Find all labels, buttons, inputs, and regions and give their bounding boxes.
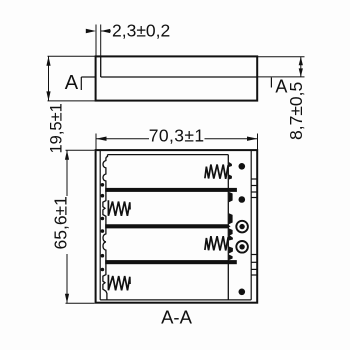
spring slot2 (left)	[108, 200, 130, 216]
extension line top	[258, 56, 305, 58]
inner wall bottom line	[100, 299, 251, 301]
svg-text:8,7±0,5: 8,7±0,5	[286, 82, 306, 140]
arrowhead down 19,5	[46, 91, 50, 101]
dimension 19,5±1 (left of top view)	[48, 56, 96, 101]
svg-text:A: A	[65, 72, 79, 94]
dimension line	[48, 56, 50, 101]
separator bar 1	[105, 188, 237, 192]
section marker A right	[270, 78, 272, 88]
cavity top edge	[108, 154, 229, 156]
extension line bottom	[48, 100, 96, 102]
outer body outline section	[96, 150, 258, 303]
extension line bottom	[66, 302, 95, 304]
arrowhead left 70,3	[96, 137, 107, 141]
dimension line left part	[96, 138, 149, 140]
contact plate bump above bar3	[229, 255, 233, 261]
body outline top view	[96, 56, 258, 100]
step vertical line	[100, 56, 102, 77]
arrowhead right of 2,3	[101, 29, 111, 33]
dimension line	[300, 57, 302, 77]
contact plate bump below bar1	[229, 192, 233, 202]
spring attach bumps slot1	[229, 162, 232, 167]
svg-text:19,5±1: 19,5±1	[48, 103, 66, 153]
dimension line right part	[205, 138, 258, 140]
step horizontal line	[101, 76, 257, 78]
separator bar 3	[105, 260, 237, 264]
extension line top	[66, 149, 95, 151]
svg-text:65,6±1: 65,6±1	[51, 196, 71, 249]
cavity right edge	[227, 155, 229, 300]
spring slot4 (left)	[108, 275, 130, 291]
contact plate bump below bar2	[229, 228, 233, 235]
dimension 65,6±1 (left of section)	[66, 150, 95, 303]
arrowhead down 65,6	[65, 294, 69, 304]
dimension 2,3±0,2	[96, 25, 111, 56]
svg-text:70,3±1: 70,3±1	[149, 126, 205, 146]
cavity left wavy edge	[103, 155, 108, 300]
extension line left	[95, 25, 97, 56]
contact strip ticks	[251, 179, 257, 275]
dimension 70,3±1 (above section)	[96, 134, 258, 150]
spring attach bumps slot3	[229, 235, 233, 241]
spring slot3 (right)	[205, 236, 228, 250]
arrowhead left of 2,3	[86, 29, 96, 33]
dimension line bottom part	[66, 254, 68, 303]
dimension line top part	[66, 150, 68, 196]
svg-text:A-A: A-A	[161, 307, 193, 328]
arrowhead up 65,6	[65, 150, 69, 160]
rivet dots left column	[101, 183, 105, 271]
extension line bottom	[258, 76, 305, 78]
arrowhead right 70,3	[247, 137, 258, 141]
separator bar 2	[105, 224, 230, 228]
arrowhead up 19,5	[46, 56, 50, 65]
contact ring 1	[236, 221, 248, 233]
extension line top	[48, 55, 96, 57]
inner wall right line (contact strip inner)	[250, 151, 252, 300]
inner wall left line	[99, 151, 101, 300]
dimension 8,7±0,5 (right of top view)	[258, 57, 305, 77]
extension line right	[100, 25, 102, 56]
arrowhead up 8,7	[299, 57, 303, 66]
contact ring 2	[236, 241, 248, 253]
extension line right	[257, 134, 259, 150]
section marker A left	[81, 77, 95, 90]
arrow tail right	[101, 30, 111, 32]
svg-text:2,3±0,2: 2,3±0,2	[112, 21, 170, 41]
arrowhead down 8,7	[299, 68, 303, 77]
extension line left	[95, 134, 97, 150]
rivet dots right column	[239, 163, 246, 295]
spring slot1 (right)	[205, 165, 228, 179]
contact plate bump above bar2	[229, 213, 233, 224]
svg-text:A: A	[275, 77, 287, 97]
